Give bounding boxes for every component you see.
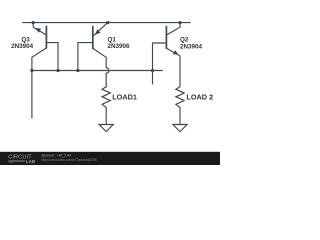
node junction dot Q1 emitter on top rail	[106, 21, 109, 24]
wire dangling input below node at x=31.8	[31, 71, 33, 118]
Q1 emitter arrow (PNP, points to base bar)	[95, 29, 101, 35]
transistor Q2	[153, 23, 181, 87]
Q1 base lead	[78, 43, 93, 71]
svg-text:Q2: Q2	[180, 36, 189, 43]
wire Q1 collector drop with hop over bottom rail	[106, 57, 109, 87]
transistor Q1	[78, 23, 108, 71]
ground for LOAD1	[99, 125, 113, 132]
node junction dot Q2 collector on top rail	[178, 21, 181, 24]
CircuitLab logo	[8, 155, 35, 165]
node junction dot bottom rail left end	[30, 69, 33, 72]
svg-text:sponsor : HK_2.49: sponsor : HK_2.49	[42, 153, 72, 157]
resistor LOAD1	[102, 87, 110, 108]
svg-text:LOAD1: LOAD1	[112, 93, 137, 102]
svg-text:LAB: LAB	[26, 159, 35, 164]
wire Q2 base stub below rail	[152, 71, 154, 85]
transistor Q3	[32, 23, 58, 71]
svg-text:http://circuitlab.com/c/7qwkdq: http://circuitlab.com/c/7qwkdq5255	[42, 158, 97, 162]
Q2 base bar	[165, 26, 167, 48]
svg-text:2N3904: 2N3904	[11, 43, 34, 50]
svg-text:LOAD 2: LOAD 2	[186, 93, 213, 102]
Q2 emitter lead	[166, 48, 180, 87]
wire top rail (VCC net)	[23, 22, 191, 24]
Q2 collector lead (to top rail)	[166, 23, 180, 35]
node junction dot Q1 base on bottom rail	[76, 69, 79, 72]
resistor LOAD 2	[176, 87, 184, 108]
wire LOAD1 to ground	[105, 108, 107, 125]
node junction dot Q3 emitter on top rail	[32, 21, 35, 24]
Q1 base bar	[92, 26, 94, 48]
Q1 emitter lead (to top rail)	[94, 23, 108, 36]
Q3 base lead	[46, 43, 58, 71]
Q3 base bar	[45, 26, 47, 48]
Q3 emitter arrow	[35, 28, 41, 33]
svg-text:2N3906: 2N3906	[108, 43, 131, 50]
node junction dot Q3 base on bottom rail	[56, 69, 59, 72]
Q3 collector lead	[32, 48, 47, 71]
Q2 base lead	[153, 43, 167, 71]
Q3 emitter lead (to top rail)	[33, 23, 46, 35]
wire bottom rail (base bus net)	[32, 70, 162, 72]
ground for LOAD 2	[173, 125, 187, 132]
Q1 collector lead	[93, 48, 106, 57]
svg-text:2N3904: 2N3904	[180, 44, 203, 51]
watermark bar	[0, 152, 220, 165]
wire LOAD 2 to ground	[179, 108, 181, 125]
Q2 emitter arrow (NPN)	[173, 50, 179, 55]
node junction dot Q2 base on bottom rail	[151, 69, 154, 72]
